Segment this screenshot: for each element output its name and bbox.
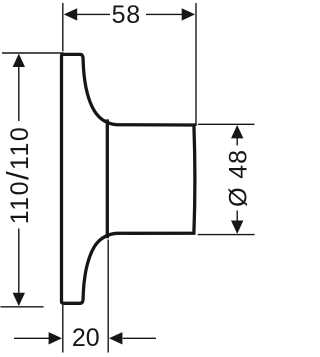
- part outline: wall plate, trumpet transition and sleeve cylinder: [62, 54, 195, 303]
- dimension 20: right extension line: [107, 240, 109, 353]
- dimension 20: left extension line: [62, 305, 64, 353]
- dimension 58: right extension line: [195, 3, 197, 126]
- svg-text:110/110: 110/110: [0, 126, 35, 225]
- dimension 20: right arrowhead (pointing left): [109, 332, 122, 344]
- dimension 20: right tail line: [123, 337, 156, 339]
- dimension 58: right arrowhead: [182, 8, 195, 20]
- dimension 20: left arrowhead (pointing right): [49, 332, 62, 344]
- dimension 58: left arrowhead: [64, 8, 77, 20]
- dimension 58: left dimension line: [74, 13, 110, 15]
- dimension 110/110: top extension line: [2, 52, 64, 54]
- dimension 58: left extension line: [62, 3, 64, 51]
- dimension 110/110: upper dimension line: [18, 65, 20, 121]
- dimension 58: right dimension line: [146, 13, 184, 15]
- dimension 20: left tail line: [14, 337, 50, 339]
- dimension D48: bottom extension line: [198, 234, 255, 236]
- dimension D48: top arrowhead: [231, 125, 243, 138]
- dimension D48: upper dimension line: [236, 138, 238, 146]
- dimension D48: bottom arrowhead: [231, 221, 243, 234]
- dimension 110/110: top arrowhead: [13, 54, 25, 67]
- svg-text:20: 20: [72, 324, 100, 352]
- svg-text:58: 58: [112, 1, 141, 29]
- face disc edge (vertical line at sleeve base): [106, 119, 109, 238]
- dimension 110/110: bottom arrowhead: [13, 293, 25, 306]
- svg-text:Ø 48: Ø 48: [225, 149, 253, 207]
- dimension D48: top extension line: [198, 123, 255, 125]
- dimension 110/110: lower dimension line: [18, 229, 20, 296]
- dimension 110/110: bottom extension line: [1, 306, 44, 308]
- dimension D48: lower dimension line: [236, 211, 238, 222]
